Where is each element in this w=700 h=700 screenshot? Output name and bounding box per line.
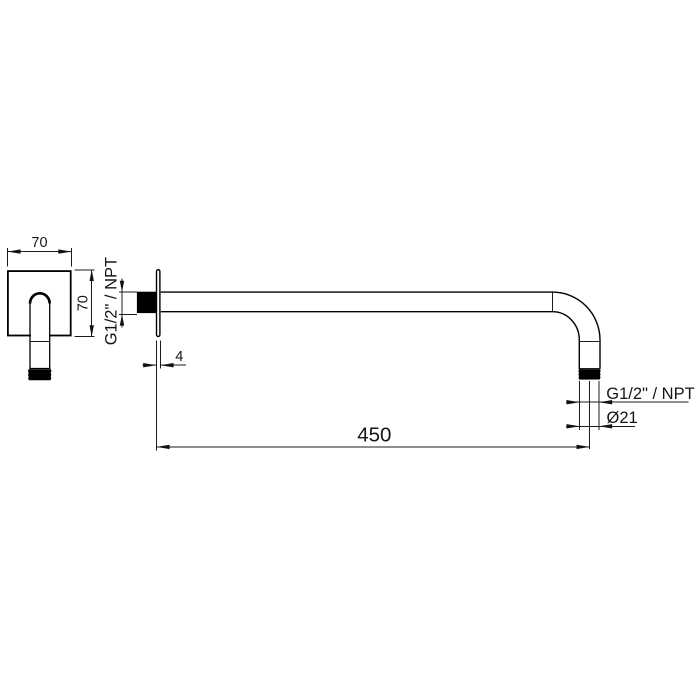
front view bend tangent line: [30, 340, 50, 342]
dim outlet thread: leader line: [566, 401, 689, 403]
white mask where arm tube crosses square bottom edge: [31, 304, 49, 368]
dim diameter 21: leader line: [566, 425, 635, 427]
side view bend end tangent line: [579, 340, 600, 342]
front view wall plate (70x70 square): [8, 271, 71, 335]
side view bend inner arc: [553, 312, 580, 340]
svg-text:70: 70: [75, 295, 91, 311]
dim 450: dimension line: [156, 446, 589, 448]
front view tube end line: [29, 368, 50, 370]
dim diameter 21: left arrow: [567, 424, 580, 428]
dim wall thread: lower arrow (points up): [120, 314, 124, 325]
outlet extension line left (tube edge): [579, 381, 581, 430]
dim 70 top: right extension line: [71, 248, 73, 267]
dim wall thread: upper arrow (points down): [120, 281, 124, 292]
outlet extension line center (tube axis): [589, 381, 591, 449]
svg-text:Ø21: Ø21: [607, 409, 638, 427]
side view bend start section line: [552, 292, 554, 312]
dim 450: right arrow: [577, 445, 590, 449]
side view bend outer arc: [553, 292, 600, 340]
dim 70 top: dimension line: [7, 251, 71, 253]
front view arm tube right side: [49, 304, 51, 369]
front view arm tube left side: [29, 304, 31, 369]
dim outlet thread: right arrow: [599, 400, 612, 404]
svg-text:4: 4: [175, 349, 183, 365]
dim 70 right: dimension line: [91, 270, 93, 337]
dim diameter 21: right arrow: [599, 424, 612, 428]
side view drop tube right line: [599, 340, 601, 369]
svg-text:G1/2" / NPT: G1/2" / NPT: [103, 257, 121, 345]
outlet extension line right (tube edge): [598, 381, 600, 430]
dim 4: right stub line and arrow: [160, 364, 186, 366]
side view arm tube bottom line: [161, 311, 553, 313]
side view arm tube top line: [161, 291, 553, 293]
side view wall thread block G1/2: [137, 292, 156, 313]
side view drop tube left line: [578, 340, 580, 369]
dim 70 right: bottom extension line: [74, 336, 94, 338]
front view arm bend silhouette (arch): [30, 293, 50, 303]
dim outlet thread: left arrow: [567, 400, 580, 404]
dim 70 right: top extension line: [74, 269, 94, 271]
dim wall thread: bottom extension line: [119, 313, 137, 315]
dim 4: left extension line (wall face, shared with 450): [155, 340, 157, 450]
dim 70 top: right arrow: [58, 249, 71, 253]
side view tube end line: [579, 368, 601, 370]
dim 4: right extension line: [159, 341, 161, 369]
svg-text:70: 70: [31, 235, 47, 251]
dim 450: left arrow: [156, 445, 169, 449]
front view threaded end G1/2: [28, 369, 51, 380]
svg-text:G1/2" / NPT: G1/2" / NPT: [606, 385, 694, 403]
dim wall thread: dimension line: [121, 278, 123, 327]
side view threaded outlet G1/2: [578, 369, 600, 379]
side view wall plate (4mm escutcheon, stadium): [157, 270, 160, 337]
dim 70 top: left arrow: [7, 249, 20, 253]
dim 70 right: bottom arrow: [90, 325, 94, 336]
dim 70 top: left extension line: [6, 248, 8, 267]
dim 4: left line and arrow: [142, 364, 156, 366]
svg-text:450: 450: [357, 424, 391, 447]
dim 70 right: top arrow: [90, 270, 94, 281]
dim wall thread: top extension line: [119, 291, 137, 293]
